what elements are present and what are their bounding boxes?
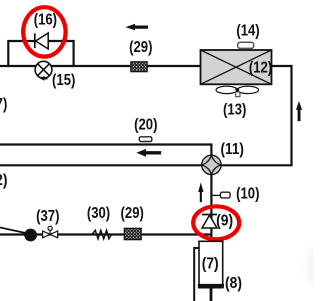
svg-text:(12): (12) bbox=[249, 60, 272, 77]
svg-text:(14): (14) bbox=[236, 23, 259, 40]
arrow up right side bbox=[296, 101, 302, 121]
svg-text:(29): (29) bbox=[121, 205, 144, 222]
arrow left middle bbox=[136, 149, 161, 157]
svg-text:(29): (29) bbox=[129, 39, 152, 56]
wire lower horizontal line bbox=[0, 164, 211, 166]
filter 29 bottom bbox=[125, 229, 142, 240]
filter 29 top bbox=[131, 62, 147, 72]
svg-text:(20): (20) bbox=[134, 117, 157, 134]
svg-text:(11): (11) bbox=[221, 141, 244, 158]
sensor 14 bbox=[238, 42, 254, 48]
wire bottom main line bbox=[0, 233, 211, 235]
svg-text:(17): (17) bbox=[0, 96, 7, 113]
svg-text:(9): (9) bbox=[216, 213, 233, 230]
svg-text:(37): (37) bbox=[36, 208, 59, 225]
valve 15 bbox=[35, 61, 52, 78]
capillary 30 bbox=[92, 230, 112, 239]
sensor 20 bbox=[139, 137, 152, 142]
valve 37 bbox=[43, 226, 58, 238]
heat exchanger 12 bbox=[201, 50, 272, 84]
sensor 10 with stub bbox=[212, 192, 230, 198]
red circle around 9 bbox=[193, 206, 239, 239]
fan 13 bbox=[216, 86, 259, 97]
svg-text:(16): (16) bbox=[34, 12, 57, 29]
wire accumulator left pipe bbox=[194, 248, 199, 301]
wire accumulator bottom pipe bbox=[210, 288, 213, 301]
wire top main line bbox=[0, 65, 201, 67]
red circle around 16 bbox=[23, 7, 65, 56]
wire vertical from valve 11 down to accumulator bbox=[210, 165, 212, 242]
four-way valve 11 bbox=[202, 155, 221, 174]
svg-text:(15): (15) bbox=[52, 72, 75, 89]
accumulator 7 bbox=[198, 241, 224, 287]
svg-text:(30): (30) bbox=[87, 205, 110, 222]
arrow up near node bbox=[198, 182, 203, 202]
svg-text:(8): (8) bbox=[225, 275, 242, 292]
check valve 16 bbox=[35, 33, 48, 49]
wire upper middle line with corner down to valve 11 bbox=[0, 145, 211, 166]
junction dot bbox=[24, 229, 37, 242]
wire bypass loop bbox=[8, 41, 73, 66]
wire HX outlet to right and down to lower line bbox=[221, 66, 292, 165]
small arrow below valve 15 bbox=[39, 76, 47, 81]
svg-text:(10): (10) bbox=[236, 186, 259, 203]
wire branch diagonal into junction dot bbox=[0, 228, 29, 234]
svg-text:(7): (7) bbox=[202, 256, 219, 273]
svg-text:(13): (13) bbox=[223, 102, 246, 119]
arrow left top bbox=[126, 24, 149, 31]
faint scan shadow right edge bbox=[307, 244, 320, 288]
check valve 9 bbox=[202, 215, 217, 229]
svg-text:(2): (2) bbox=[0, 172, 8, 189]
